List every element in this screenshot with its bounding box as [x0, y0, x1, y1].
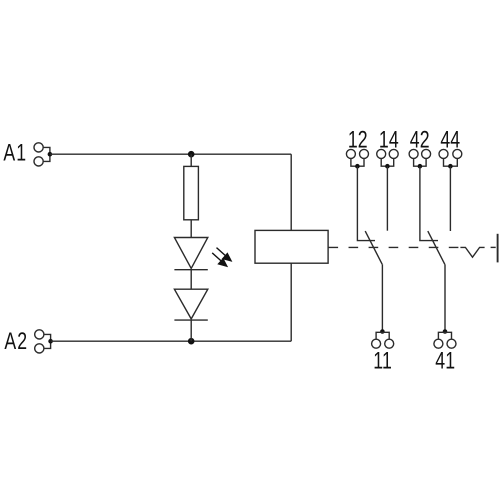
LED D1 — [174, 238, 207, 270]
svg-text:A2: A2 — [4, 329, 28, 355]
terminal 12 (double clamp symbol) — [346, 149, 368, 168]
terminal 14 (double clamp symbol) — [377, 149, 399, 168]
node junction on A1 wire — [188, 151, 195, 158]
node junction on A2 wire — [188, 338, 195, 345]
terminal 42 (double clamp symbol) — [409, 149, 431, 168]
forced-guidance chevron — [460, 247, 484, 257]
wire diode to A2 node — [190, 320, 192, 341]
diode D2 — [174, 289, 207, 320]
wire A1 line down to coil — [290, 154, 292, 230]
wire coil down to A2 line — [290, 263, 292, 341]
mechanical linkage dashed line — [329, 246, 459, 248]
terminal 44 (double clamp symbol) — [439, 149, 462, 168]
dash before wall — [491, 246, 496, 248]
mechanical wall bar — [497, 234, 499, 263]
terminal A1 (double clamp symbol) — [34, 143, 52, 166]
wire 14 down (NO fixed contact) — [386, 166, 388, 231]
wire A1 horizontal — [50, 153, 291, 155]
wire 42 down, NC fixed contact — [420, 166, 438, 240]
LED emission arrows — [212, 248, 232, 268]
wire LED to diode — [190, 270, 192, 290]
wire 12 down, NC fixed contact — [357, 166, 375, 240]
terminal A2 (double clamp symbol) — [35, 330, 53, 353]
svg-text:11: 11 — [373, 348, 392, 374]
contact lever CO1 — [365, 231, 382, 264]
contact lever CO2 — [428, 231, 445, 264]
wire 44 down (NO fixed contact) — [449, 166, 451, 231]
terminal 11 (double clamp symbol) — [372, 329, 394, 348]
wire common to terminal 41 — [444, 264, 446, 331]
svg-text:A1: A1 — [3, 140, 27, 166]
resistor R1 — [184, 166, 199, 219]
wire A2 horizontal — [51, 340, 292, 342]
wire common to terminal 11 — [381, 264, 383, 331]
wire resistor to LED — [190, 220, 192, 238]
terminal 41 (double clamp symbol) — [434, 329, 456, 348]
relay coil K1 — [255, 230, 328, 263]
wire from A1 node down to resistor — [190, 154, 192, 166]
svg-text:41: 41 — [435, 348, 455, 374]
